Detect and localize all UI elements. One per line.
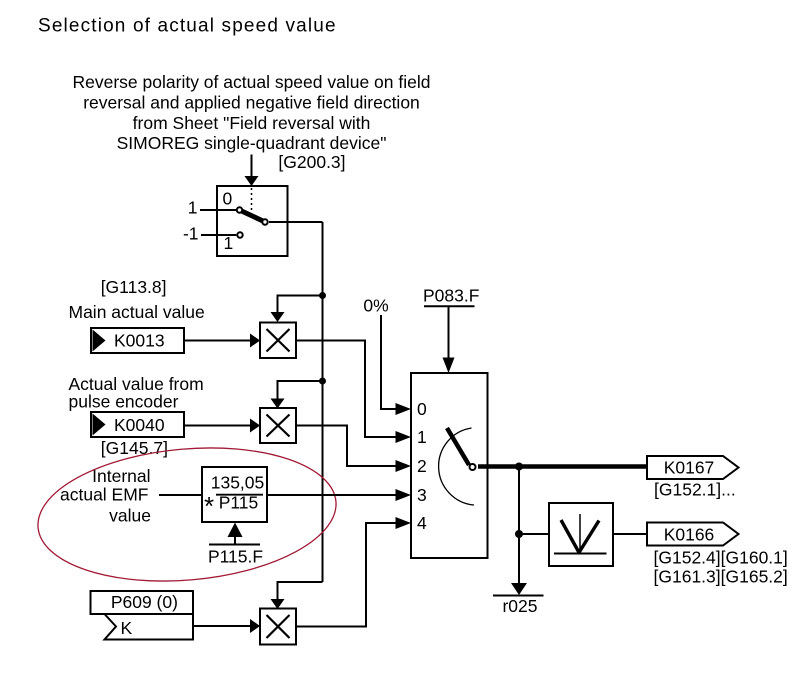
svg-text:K0013: K0013 [114, 331, 165, 351]
svg-text:[G161.3][G165.2]: [G161.3][G165.2] [654, 567, 788, 587]
svg-text:1: 1 [417, 427, 427, 447]
svg-text:-1: -1 [183, 224, 199, 244]
wire: branch to multiplier M1 [278, 296, 323, 314]
P083.F underline [424, 305, 475, 307]
svg-text:pulse encoder: pulse encoder [69, 392, 179, 412]
wire: input 1 of switch [200, 209, 236, 211]
limiter block [549, 503, 613, 566]
arrowhead into multiplier M3 top [271, 599, 285, 609]
connector K0166 [647, 523, 739, 546]
wire: P609 K output to multiplier M3 [193, 625, 251, 627]
selector contact circle [470, 464, 476, 470]
switch S1 box [217, 186, 288, 256]
connector K0167 [647, 456, 739, 479]
svg-text:P115.F: P115.F [208, 547, 263, 567]
svg-text:[G145.7]: [G145.7] [101, 438, 168, 458]
arrowhead selector input 3 [396, 489, 412, 501]
svg-text:from Sheet "Field reversal wit: from Sheet "Field reversal with [133, 113, 371, 133]
wire: main vertical bus [322, 222, 324, 582]
svg-text:3: 3 [417, 485, 427, 505]
svg-text:K0040: K0040 [114, 415, 165, 435]
svg-text:0: 0 [417, 399, 427, 419]
svg-text:P083.F: P083.F [423, 286, 479, 306]
svg-text:P609 (0): P609 (0) [111, 592, 178, 612]
svg-text:reversal and applied negative: reversal and applied negative field dire… [83, 92, 420, 112]
r025 rail line [493, 595, 544, 597]
K connector row of P609 [105, 614, 194, 640]
arrowhead selector input 0 [396, 403, 412, 415]
svg-text:*: * [204, 491, 214, 521]
wire: bus bottom turn to multiplier M3 [278, 582, 323, 600]
svg-text:Reverse polarity of actual spe: Reverse polarity of actual speed value o… [73, 72, 431, 92]
switch contact circle lower [237, 232, 242, 237]
arrowhead into multiplier M1 top [271, 312, 285, 322]
selector box U1 [411, 373, 488, 558]
arrowhead into scaling block bottom (P115.F) [228, 523, 243, 538]
svg-text:1: 1 [188, 198, 198, 218]
svg-text:Main actual value: Main actual value [69, 302, 205, 322]
wire: multiplier M3 output to selector input 4 [296, 523, 396, 627]
selector dial arc [439, 428, 474, 505]
arrowhead to r025 [511, 583, 527, 595]
wire: selector output (thick) to K0167 [478, 464, 647, 469]
svg-text:4: 4 [417, 513, 427, 533]
wire: P083.F control into selector [448, 306, 450, 358]
switch contact circle output [262, 219, 267, 224]
multiplier M2 [260, 408, 296, 443]
wire: 0% to selector input 0 [381, 315, 396, 409]
junction dot on thick output [515, 463, 523, 471]
selector lever (thick) [447, 428, 469, 465]
svg-text:K0166: K0166 [664, 525, 715, 545]
junction dot at branch to multiplier M2 [319, 378, 326, 385]
wire: K0013 to multiplier M1 [184, 340, 251, 342]
svg-text:K: K [121, 618, 133, 638]
svg-text:[G113.8]: [G113.8] [101, 277, 167, 297]
arrowhead selector input 1 [396, 431, 412, 443]
arrowhead into multiplier M1 left [250, 334, 260, 348]
wire: multiplier M2 output to selector input 2 [296, 426, 396, 467]
svg-text:value: value [109, 506, 151, 526]
svg-text:[G152.4][G160.1]: [G152.4][G160.1] [654, 548, 788, 568]
dotted control line inside switch [251, 188, 253, 212]
arrowhead into multiplier M3 left [250, 619, 260, 633]
junction dot at limiter branch [515, 530, 523, 538]
svg-text:K0167: K0167 [664, 458, 715, 478]
arrowhead selector input 4 [396, 517, 412, 529]
wire: multiplier M1 output to selector input 1 [296, 341, 396, 438]
svg-text:Selection of actual speed valu: Selection of actual speed value [38, 16, 337, 37]
connector K0040 [91, 412, 184, 437]
svg-text:actual EMF: actual EMF [60, 485, 149, 505]
svg-text:[G200.3]: [G200.3] [278, 152, 345, 172]
P115.F overline [209, 544, 260, 546]
wire: K0040 to multiplier M2 [184, 425, 251, 427]
wire: branch to limiter [519, 533, 549, 535]
wire: down from output junction [518, 467, 520, 535]
scaling block 135,05/P115 [202, 467, 267, 522]
switch lever (thick) [241, 211, 264, 222]
wire: EMF value into scaling block [159, 494, 202, 496]
svg-text:135,05: 135,05 [211, 473, 265, 493]
svg-text:0: 0 [223, 189, 233, 209]
svg-text:0%: 0% [363, 296, 388, 316]
arrowhead into switch top [245, 176, 259, 186]
red annotation ellipse [32, 436, 341, 593]
svg-text:2: 2 [417, 456, 427, 476]
arrowhead into multiplier M2 left [250, 419, 260, 433]
multiplier M1 [260, 323, 296, 359]
limiter symbol thin vertical [579, 514, 581, 553]
wire: scaling block output to selector input 3 [267, 494, 396, 496]
arrowhead into multiplier M2 top [271, 399, 285, 409]
wire: limiter output to K0166 [613, 533, 647, 535]
switch contact circle upper [237, 207, 242, 212]
svg-text:SIMOREG single-quadrant device: SIMOREG single-quadrant device" [117, 133, 387, 153]
limiter symbol baseline [554, 553, 607, 555]
connector K0013 [91, 328, 184, 353]
svg-text:P115: P115 [219, 493, 259, 513]
limiter symbol thick V [561, 520, 579, 553]
svg-text:[G152.1]...: [G152.1]... [654, 480, 736, 500]
wire: control line into switch S1 [251, 155, 253, 177]
arrowhead selector input 2 [396, 460, 412, 472]
junction dot at branch to multiplier M1 [319, 292, 326, 299]
multiplier M3 [260, 609, 296, 645]
arrowhead into selector top [443, 358, 455, 374]
svg-text:Internal: Internal [92, 466, 150, 486]
wire: branch to multiplier M2 [278, 381, 323, 400]
wire: input -1 of switch [201, 234, 236, 236]
wire: down to r025 display [518, 534, 520, 584]
wire: switch output [269, 221, 323, 223]
svg-text:r025: r025 [502, 596, 537, 616]
parameter box P609 [91, 591, 194, 614]
